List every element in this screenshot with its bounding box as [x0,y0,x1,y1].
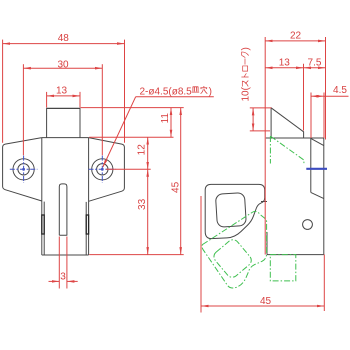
svg-text:45: 45 [170,181,181,193]
svg-text:45: 45 [260,296,272,307]
svg-text:22: 22 [290,30,302,41]
svg-text:2-ø4.5(ø8.5: 2-ø4.5(ø8.5 [140,86,193,97]
svg-text:11: 11 [160,113,171,124]
svg-text:13: 13 [279,57,291,68]
svg-text:3: 3 [60,271,66,282]
svg-text:7.5: 7.5 [308,57,322,68]
svg-text:4.5: 4.5 [333,85,347,96]
svg-text:33: 33 [137,198,148,210]
svg-text:10(: 10( [241,86,252,101]
svg-text:30: 30 [57,60,69,71]
svg-text:48: 48 [58,33,70,44]
svg-text:13: 13 [56,85,68,96]
svg-text:): ) [241,47,252,50]
svg-text:): ) [209,86,212,97]
svg-text:12: 12 [137,144,148,156]
